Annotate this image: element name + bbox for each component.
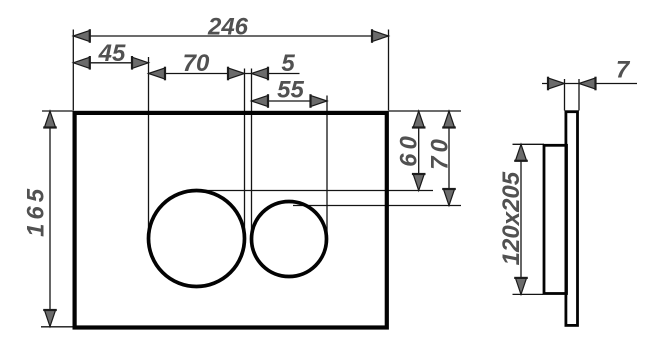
svg-text:246: 246 — [207, 14, 249, 41]
svg-text:45: 45 — [98, 40, 126, 67]
svg-text:7: 7 — [616, 57, 631, 84]
svg-text:5: 5 — [281, 50, 295, 77]
svg-text:55: 55 — [277, 77, 304, 104]
svg-text:70: 70 — [427, 135, 454, 170]
svg-text:165: 165 — [23, 185, 50, 237]
svg-text:120x205: 120x205 — [498, 171, 525, 265]
svg-text:60: 60 — [396, 132, 423, 167]
svg-text:70: 70 — [183, 50, 210, 77]
